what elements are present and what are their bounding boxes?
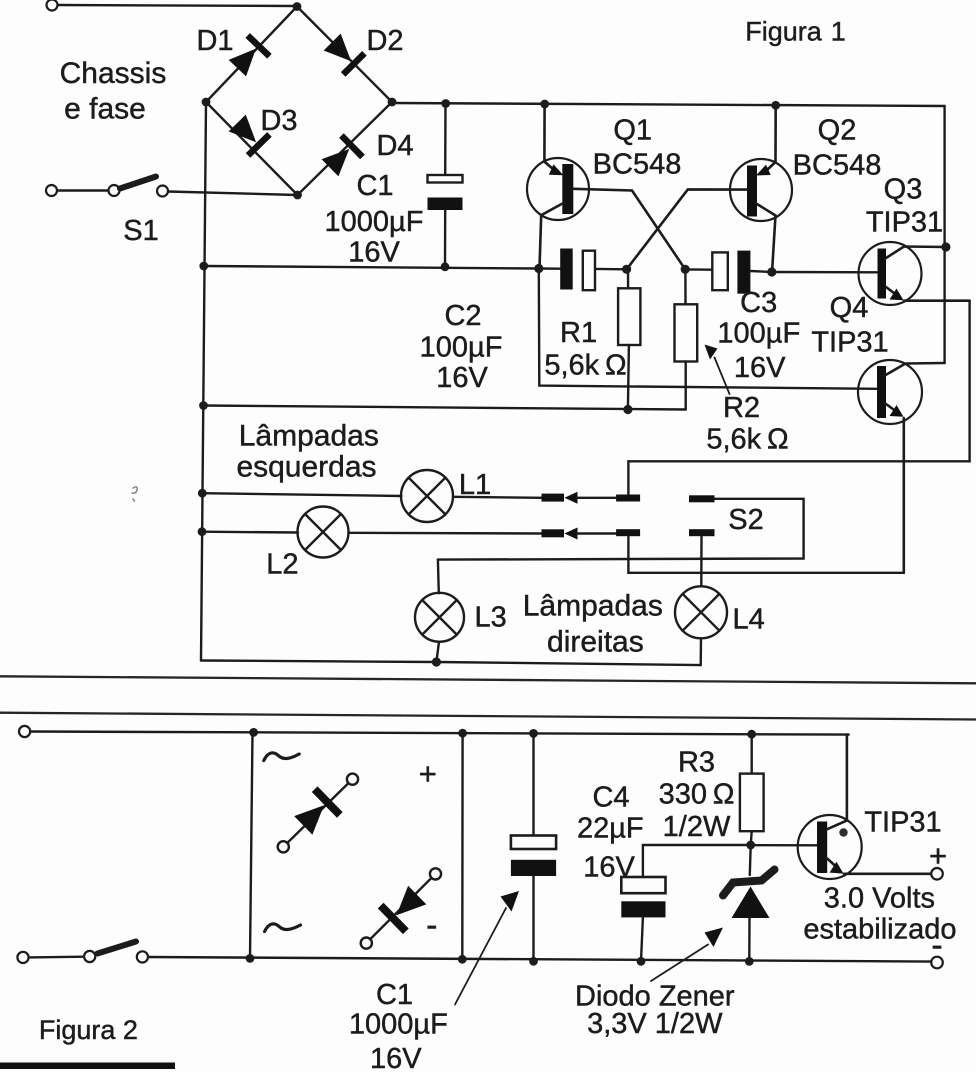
svg-text:Figura 2: Figura 2 (39, 1015, 138, 1045)
svg-text:L1: L1 (459, 469, 491, 501)
svg-text:L3: L3 (474, 602, 506, 634)
wire S1 to bridge bottom (168, 192, 298, 196)
svg-text:22µF: 22µF (577, 813, 644, 845)
S2 contact bar 2b (616, 529, 640, 536)
capacitor C1 (428, 104, 463, 267)
svg-text:D4: D4 (376, 130, 413, 162)
node C2 / R1 junction (622, 265, 631, 274)
svg-text:1000µF: 1000µF (349, 1009, 448, 1041)
node bridge right (388, 98, 397, 107)
wire bridge bottom-left edge (206, 102, 298, 195)
diode D3 (226, 113, 271, 158)
svg-text:D3: D3 (260, 105, 297, 137)
wire L3 bottom lead (436, 642, 439, 662)
transistor Q3 (859, 242, 970, 305)
svg-text:16V: 16V (734, 352, 786, 384)
scan smudge mark (132, 487, 137, 501)
node Q3 collector / right rail (941, 242, 950, 251)
svg-text:C4: C4 (592, 782, 629, 814)
node R1 / rail3 (623, 405, 632, 414)
rectifier diode upper (278, 774, 358, 853)
svg-text:-: - (931, 927, 942, 965)
node C1 top fig2 (529, 729, 538, 738)
lamp L3 (415, 593, 464, 642)
capacitor C3 (685, 251, 772, 294)
node R3 top (747, 730, 756, 739)
lamp L4 (675, 586, 727, 638)
lamp L1 (401, 470, 453, 522)
svg-text:TIP31: TIP31 (866, 207, 943, 239)
svg-text:5,6k Ω: 5,6k Ω (706, 424, 788, 456)
node zener bottom (745, 957, 754, 966)
node C4 bottom (637, 957, 646, 966)
terminal circle output minus (931, 957, 943, 969)
svg-text:C1: C1 (356, 170, 393, 202)
node C1 bottom fig2 (529, 957, 538, 966)
svg-text:3.0 Volts: 3.0 Volts (824, 883, 935, 915)
node C1 bottom (441, 262, 450, 271)
svg-text:L2: L2 (266, 549, 298, 581)
svg-text:R3: R3 (678, 747, 715, 779)
svg-text:esquerdas: esquerdas (236, 451, 376, 484)
wire bridge bottom-right edge (298, 102, 393, 195)
wire bar3a loop to L3 (438, 499, 804, 560)
svg-text:Figura 1: Figura 1 (745, 17, 846, 47)
S2 contact bar 3b (689, 529, 715, 536)
svg-text:16V: 16V (436, 362, 488, 394)
S2 contact bar 1a (542, 494, 565, 502)
svg-text:16V: 16V (583, 852, 635, 884)
diode D2 (321, 31, 366, 76)
node left rail / lamp L1 wire (198, 489, 207, 498)
resistor R3 (740, 734, 764, 845)
terminal circle top-left (47, 0, 58, 11)
svg-text:+: + (929, 838, 947, 873)
switch fig2 (84, 942, 148, 963)
rectifier diode lower (361, 868, 441, 948)
annotation arrow R2 (705, 345, 730, 395)
node bridge bottom (293, 191, 302, 200)
node C3 / R2 junction (681, 265, 690, 274)
capacitor C2 (539, 249, 627, 291)
svg-text:BC548: BC548 (593, 149, 682, 181)
wire C4 branch (643, 845, 751, 877)
wire wiper row2 (577, 532, 616, 534)
terminal circle fig2 top-left (19, 726, 30, 737)
svg-text:e fase: e fase (64, 93, 146, 126)
wire bottom rail fig1 (201, 661, 701, 666)
svg-text:+: + (419, 756, 437, 791)
switch S1 (46, 177, 168, 197)
node rectifier right bottom (458, 955, 467, 964)
svg-text:Q4: Q4 (830, 292, 869, 324)
svg-text:Lâmpadas: Lâmpadas (239, 420, 379, 453)
wire rectifier right side (461, 733, 464, 959)
capacitor C4 (621, 877, 665, 961)
svg-text:R1: R1 (560, 317, 597, 349)
wire top-left input (57, 5, 297, 6)
S2 contact bar 2a (542, 529, 565, 537)
svg-text:TIP31: TIP31 (864, 807, 941, 839)
svg-text:16V: 16V (370, 1043, 422, 1072)
S2 wiper arrow row1 (564, 492, 577, 504)
annotation arrow zener (651, 928, 723, 982)
wire rectifier left side (250, 732, 253, 958)
wire L1 row (202, 493, 401, 496)
node left rail / mid wire (199, 262, 208, 271)
wire rail3 (R1 R2 return) (204, 406, 686, 410)
terminal circle fig2 bottom-left (17, 952, 28, 963)
diode D1 (226, 33, 271, 78)
transistor Q2 (627, 105, 792, 271)
wire fig2 top rail (30, 732, 849, 735)
svg-text:Chassis: Chassis (60, 57, 167, 90)
svg-text:Q3: Q3 (884, 174, 923, 206)
wire Q1 emitter to Q4 base (539, 269, 877, 389)
node bridge left (202, 98, 211, 107)
wire L4 bottom lead (700, 638, 703, 665)
node bridge top (293, 2, 302, 11)
svg-text:Q1: Q1 (613, 115, 652, 147)
svg-text:16V: 16V (348, 237, 400, 269)
lamp L2 (298, 507, 349, 558)
separator line upper (0, 676, 976, 683)
transistor Q4 (858, 360, 945, 573)
svg-text:S2: S2 (728, 504, 763, 536)
svg-text:S1: S1 (123, 215, 158, 247)
svg-text:direitas: direitas (547, 626, 644, 659)
wire fig2 bottom rail (28, 956, 84, 959)
S2 contact bar 1b (616, 495, 640, 502)
node rectifier left top (249, 728, 258, 737)
wire bridge top-left edge (206, 7, 297, 103)
ac squiggle bottom (265, 924, 301, 932)
FIGURE1 (46, 0, 970, 667)
svg-text:BC548: BC548 (793, 150, 882, 182)
svg-text:C3: C3 (740, 287, 777, 319)
S2 wiper arrow row2 (564, 528, 577, 540)
wire bridge top-right edge (297, 7, 392, 103)
wire mid rail left (204, 266, 539, 269)
wire bar3b to L4 (700, 536, 703, 586)
wire L2 to S2 (349, 532, 542, 535)
wire wiper row1 (577, 497, 616, 499)
wire bar2b to Q4 emitter (628, 536, 903, 573)
annotation arrow C1 fig2 (455, 891, 519, 1005)
transistor TIP31 fig2 (798, 735, 932, 879)
svg-text:TIP31: TIP31 (811, 327, 888, 359)
node Q1 collector feed (540, 100, 549, 109)
wire L3 riser (437, 560, 440, 594)
svg-text:C2: C2 (444, 300, 481, 332)
svg-text:Q2: Q2 (818, 115, 857, 147)
wire L2 row (202, 531, 298, 534)
node left rail / lamp L2 wire (198, 527, 207, 536)
node R3 / zener / base junction (746, 841, 755, 850)
node rectifier left bottom (246, 954, 255, 963)
resistor R2 (675, 269, 698, 409)
node Q1 emitter junction (534, 264, 543, 273)
node Q2 emitter junction (767, 267, 776, 276)
zener diode (723, 845, 775, 961)
node rectifier right top (458, 729, 467, 738)
terminal circle output plus (931, 868, 943, 880)
svg-text:D2: D2 (366, 25, 403, 57)
svg-text:330 Ω: 330 Ω (659, 779, 735, 811)
svg-text:100µF: 100µF (420, 332, 503, 364)
svg-text:D1: D1 (196, 25, 233, 57)
wire top rail (392, 103, 945, 106)
node left rail / rail3 (199, 401, 208, 410)
ac squiggle top (264, 753, 299, 761)
wire to Q3 base (772, 271, 878, 274)
svg-text:-: - (426, 907, 437, 945)
svg-text:5,6k Ω: 5,6k Ω (544, 350, 626, 382)
wire L1 to S2 (453, 497, 542, 498)
node Q2 collector feed (771, 101, 780, 110)
capacitor C1 fig2 (511, 733, 556, 961)
svg-text:R2: R2 (723, 392, 760, 424)
svg-text:L4: L4 (732, 604, 764, 636)
wire Q3 emitter drop (628, 301, 969, 495)
svg-text:1000µF: 1000µF (325, 206, 424, 238)
wire left rail (201, 102, 206, 661)
node L3 / bottom rail (432, 657, 441, 666)
diode D4 (320, 133, 365, 178)
FIGURE2 (0, 726, 943, 1069)
resistor R1 (618, 269, 640, 409)
svg-text:100µF: 100µF (717, 318, 800, 350)
transistor Q1 (527, 105, 685, 269)
S2 contact bar 3a (689, 495, 715, 502)
svg-text:Lâmpadas: Lâmpadas (523, 590, 663, 623)
separator line lower (0, 713, 976, 720)
wire base TIP31 fig2 (751, 844, 817, 846)
svg-text:C1: C1 (376, 979, 413, 1011)
node C1 top (441, 99, 450, 108)
svg-text:3,3V 1/2W: 3,3V 1/2W (587, 1008, 723, 1040)
black mark bottom-left (0, 1063, 175, 1070)
svg-text:1/2W: 1/2W (663, 811, 731, 843)
wire right rail (943, 106, 945, 363)
